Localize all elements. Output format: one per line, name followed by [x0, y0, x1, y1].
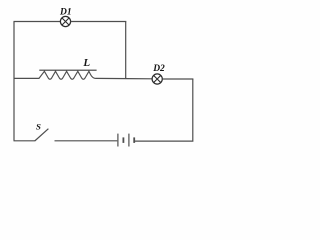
wire: top horizontal left of D1	[14, 21, 61, 23]
wire: right vertical branch	[135, 79, 193, 141]
svg-text:L: L	[82, 57, 90, 69]
switch S blade	[35, 129, 49, 141]
battery: cell 1 long plate (positive)	[117, 134, 119, 147]
label S	[36, 122, 41, 132]
wire: bottom horizontal from battery to switch	[55, 140, 118, 142]
battery: cell 2 long plate (positive)	[128, 134, 130, 147]
label D1	[59, 8, 72, 18]
wire: bottom horizontal from left vertical to switch blade	[14, 140, 35, 142]
wire: middle horizontal from left vertical to inductor	[14, 77, 40, 79]
wire: middle horizontal from inductor to lamp D2	[96, 77, 152, 79]
wire: left vertical branch	[13, 22, 15, 141]
wire: top horizontal right of D1	[71, 21, 127, 23]
wire: middle horizontal right of D2	[162, 78, 193, 80]
wire: vertical from top branch down to middle node	[125, 22, 127, 79]
battery: cell 1 short plate (negative)	[122, 137, 124, 143]
lamp D2	[152, 74, 162, 84]
svg-text:D1: D1	[59, 8, 72, 18]
node: tee junction of top branch and middle wire	[125, 78, 127, 79]
lamp D1	[60, 16, 70, 26]
label L	[82, 57, 90, 69]
battery: cell 2 short plate (negative)	[133, 137, 135, 143]
inductor L core line	[39, 69, 96, 71]
svg-text:S: S	[36, 122, 41, 132]
label D2	[152, 64, 165, 74]
svg-text:D2: D2	[152, 64, 165, 74]
inductor L coil	[39, 71, 96, 79]
